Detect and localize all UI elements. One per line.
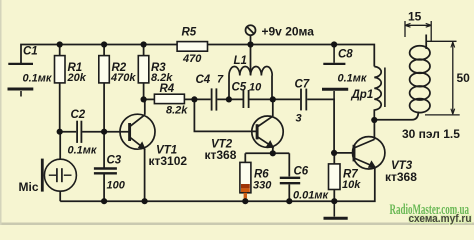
wire mic top stem — [59, 132, 61, 160]
svg-text:30 пэл 1.5: 30 пэл 1.5 — [402, 127, 460, 141]
node tank right — [270, 96, 276, 102]
dimension 50 (coil length) — [425, 41, 460, 115]
node rail-C8 — [331, 41, 337, 47]
capacitor C2 0.1mk — [77, 121, 81, 143]
wire R6 bottom stem — [244, 193, 246, 201]
svg-text:L1: L1 — [234, 55, 247, 67]
node gnd C3 — [101, 198, 107, 204]
svg-text:C4: C4 — [196, 74, 211, 86]
transistor VT3 kt368 — [353, 137, 385, 169]
svg-text:10k: 10k — [342, 179, 361, 191]
node C2 right — [101, 129, 107, 135]
wire R2 column (rail to C2/C3 node) — [103, 45, 105, 132]
resistor R7 10k — [329, 164, 341, 190]
node Dr1 out — [371, 117, 377, 123]
wire Dr1 node to antenna coil — [374, 112, 418, 120]
svg-text:15: 15 — [408, 10, 422, 24]
wire VT3 collector to Dr1 node — [373, 120, 375, 139]
svg-text:C8: C8 — [338, 48, 353, 60]
wire C3 top stem — [103, 132, 105, 168]
node rail-R1 — [57, 41, 63, 47]
wire C2 left segment — [60, 131, 76, 133]
node C2 left — [57, 129, 63, 135]
svg-text:3: 3 — [296, 112, 302, 124]
ground — [324, 201, 348, 218]
wire VT2 emitter drop — [272, 147, 274, 153]
inductor L1 (tapped) — [229, 66, 272, 75]
node gnd VT1e — [142, 198, 148, 204]
node gnd R6 — [242, 198, 248, 204]
wire VT2 emitter branch R6/C6 — [245, 152, 289, 154]
svg-text:0.1мк: 0.1мк — [68, 144, 98, 156]
svg-text:330: 330 — [253, 179, 272, 191]
wire R3 column (rail to R4 node) — [143, 45, 145, 100]
wire mic bottom stem — [59, 191, 61, 201]
node gnd R7 — [331, 198, 337, 204]
wire C2 right segment to VT1 base — [82, 131, 130, 133]
svg-text:100: 100 — [107, 179, 126, 191]
resistor R5 470 (series in rail) — [177, 42, 207, 52]
svg-text:0.01мк: 0.01мк — [293, 190, 330, 202]
wire C6 top stem — [288, 153, 290, 176]
node VT3 base — [331, 150, 337, 156]
microphone Mic — [42, 159, 76, 192]
svg-text:C7: C7 — [295, 78, 310, 90]
svg-text:C2: C2 — [71, 109, 86, 121]
wire VT2 collector — [272, 99, 274, 116]
capacitor C8 0.1mk — [322, 45, 348, 100]
capacitor C6 0.01mk — [280, 178, 300, 183]
wire L1 tap from +9v node — [250, 45, 252, 75]
wire R4 left link — [144, 98, 155, 100]
wire L1 left leg — [228, 76, 230, 100]
resistor R3 — [138, 56, 149, 83]
resistor R2 — [99, 56, 110, 83]
svg-text:схема.myf.ru: схема.myf.ru — [409, 213, 472, 225]
svg-text:50: 50 — [457, 71, 471, 85]
svg-text:C6: C6 — [294, 166, 309, 178]
resistor R6 330 (red-marked) — [240, 162, 251, 192]
svg-text:470: 470 — [182, 53, 202, 65]
svg-text:8.2k: 8.2k — [151, 72, 173, 84]
wire L1 right leg — [271, 76, 273, 100]
node gnd C6 — [286, 198, 292, 204]
wire R7 top stem — [333, 153, 335, 164]
svg-text:кт368: кт368 — [385, 170, 417, 184]
wire R4 node drop to VT2 base — [194, 99, 257, 131]
wire R6 top stem — [244, 153, 246, 162]
wire C3 bottom stem — [103, 174, 105, 201]
wire R1 column (rail to C2 node) — [59, 45, 61, 132]
antenna coil (5 turns) — [410, 35, 430, 113]
wire R4 right to C4 — [184, 98, 210, 100]
choke Dr1 — [374, 67, 385, 121]
svg-text:0.1мк: 0.1мк — [338, 73, 368, 85]
svg-text:10: 10 — [249, 82, 262, 94]
svg-text:R5: R5 — [182, 27, 197, 39]
wire C7 right to VT3 base column — [307, 99, 334, 152]
resistor R1 — [55, 56, 66, 83]
capacitor C4 7 — [212, 88, 217, 110]
node tank left — [226, 96, 232, 102]
node rail-R3 — [141, 41, 147, 47]
svg-text:8.2k: 8.2k — [166, 105, 188, 117]
svg-text:0.1мк: 0.1мк — [23, 72, 53, 84]
capacitor C5 10 — [243, 90, 248, 108]
svg-text:Др1: Др1 — [351, 89, 374, 101]
wire C4 to tank left node to C5 — [217, 98, 242, 100]
dimension 15 (coil diameter) — [405, 21, 431, 41]
node rail-R2 — [101, 41, 107, 47]
capacitor C7 3 — [301, 89, 306, 111]
svg-text:7: 7 — [217, 73, 224, 85]
node R3-R4 — [141, 96, 147, 102]
wire top supply rail — [21, 45, 374, 67]
node VT2 emitter — [270, 150, 276, 156]
capacitor C3 100 — [94, 169, 117, 174]
svg-text:R4: R4 — [160, 83, 175, 95]
svg-text:C5: C5 — [232, 82, 247, 94]
wire VT1 emitter to ground rail — [144, 149, 146, 201]
transistor VT2 kt368 — [252, 116, 283, 148]
svg-text:C3: C3 — [107, 155, 122, 167]
svg-text:кт368: кт368 — [205, 148, 237, 162]
svg-text:C1: C1 — [23, 46, 38, 58]
svg-text:Mic: Mic — [19, 180, 39, 194]
svg-text:кт3102: кт3102 — [149, 154, 188, 168]
node rail+9v — [247, 41, 253, 47]
svg-text:470k: 470k — [110, 72, 136, 84]
wire R7 bottom stem — [333, 190, 335, 202]
wire C6 bottom stem — [288, 184, 290, 201]
svg-text:+9v 20ма: +9v 20ма — [262, 25, 315, 39]
wire C5 to tank right node to C7 — [249, 98, 300, 100]
wire bottom ground rail — [60, 167, 375, 201]
node R4-C4 — [191, 96, 197, 102]
power terminal +9v — [246, 25, 256, 44]
resistor R4 8.2k (series to VT2 base) — [154, 94, 184, 103]
wire VT1 collector — [144, 99, 146, 114]
capacitor C1 0.1mk — [8, 64, 34, 97]
wire VT3 base link — [334, 152, 354, 154]
svg-text:20k: 20k — [67, 72, 87, 84]
transistor VT1 kt3102 — [120, 114, 155, 149]
